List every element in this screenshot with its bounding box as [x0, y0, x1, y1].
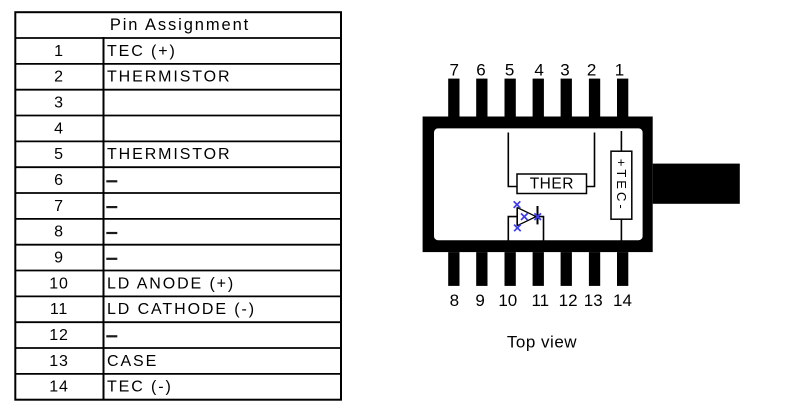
table row pin 8: – — [54, 224, 117, 241]
svg-text:9: 9 — [54, 250, 64, 267]
svg-text:6: 6 — [476, 61, 485, 80]
svg-text:6: 6 — [54, 172, 64, 189]
svg-text:Top view: Top view — [507, 333, 577, 352]
svg-text:+TEC-: +TEC- — [614, 159, 629, 212]
thermistor THER — [517, 174, 587, 194]
svg-text:14: 14 — [49, 379, 68, 396]
pin 7 lead (top) — [448, 79, 459, 117]
svg-text:THER: THER — [530, 175, 574, 192]
svg-text:7: 7 — [54, 198, 64, 215]
table row pin 5: THERMISTOR — [54, 146, 231, 163]
table row pin 3: (blank) — [54, 95, 64, 112]
svg-text:7: 7 — [449, 61, 458, 80]
svg-text:11: 11 — [50, 301, 68, 318]
wire pin 10 to LD anode — [508, 217, 517, 241]
svg-text:LD CATHODE (-): LD CATHODE (-) — [107, 301, 256, 318]
svg-text:12: 12 — [49, 327, 68, 344]
svg-text:13: 13 — [49, 353, 68, 370]
pin assignment table grid — [15, 12, 341, 400]
svg-text:TEC (-): TEC (-) — [107, 379, 173, 396]
svg-text:5: 5 — [505, 61, 514, 80]
svg-text:8: 8 — [450, 291, 459, 310]
pin 4 lead (top) — [533, 79, 544, 117]
svg-text:THERMISTOR: THERMISTOR — [107, 69, 231, 86]
pin 11 lead (bottom) — [533, 252, 544, 286]
table row pin 14: TEC (-) — [49, 379, 172, 396]
svg-text:10: 10 — [49, 275, 68, 292]
svg-text:1: 1 — [54, 43, 64, 60]
pin 3 lead (top) — [561, 79, 572, 117]
pin 1 lead (top) — [617, 79, 628, 117]
pin 13 lead (bottom) — [589, 252, 600, 286]
svg-text:2: 2 — [587, 61, 596, 80]
laser diode LD cathode bar — [537, 206, 539, 224]
svg-text:11: 11 — [531, 291, 549, 310]
table row pin 2: THERMISTOR — [54, 69, 231, 86]
table row pin 1: TEC (+) — [54, 43, 177, 60]
package body (butterfly case, top view) — [423, 117, 653, 253]
svg-text:9: 9 — [475, 291, 484, 310]
table row pin 12: – — [49, 327, 117, 344]
svg-text:3: 3 — [54, 95, 64, 112]
fiber ferrule stub — [653, 164, 740, 204]
table row pin 6: – — [54, 172, 117, 189]
svg-text:LD ANODE (+): LD ANODE (+) — [107, 275, 235, 292]
table row pin 11: LD CATHODE (-) — [50, 301, 256, 318]
pin 8 lead (bottom) — [448, 252, 459, 286]
laser diode LD anode line — [516, 207, 518, 225]
pin 2 lead (top) — [589, 79, 600, 117]
svg-text:THERMISTOR: THERMISTOR — [107, 146, 231, 163]
svg-text:12: 12 — [559, 291, 578, 310]
wire pin 5 to thermistor — [508, 133, 517, 187]
table row pin 7: – — [54, 198, 117, 215]
table row pin 10: LD ANODE (+) — [49, 275, 235, 292]
svg-text:10: 10 — [498, 291, 517, 310]
wire LD cathode to pin 11 — [538, 217, 544, 241]
svg-text:TEC (+): TEC (+) — [107, 43, 177, 60]
svg-text:2: 2 — [54, 69, 64, 86]
svg-text:1: 1 — [615, 61, 624, 80]
table row pin 9: – — [54, 250, 117, 267]
table row pin 13: CASE — [49, 353, 158, 370]
svg-text:14: 14 — [613, 291, 632, 310]
pin 10 lead (bottom) — [505, 252, 516, 286]
selection handle X (LD bottom) — [514, 225, 521, 232]
pin 14 lead (bottom) — [617, 252, 628, 286]
laser diode LD triangle — [517, 208, 536, 226]
wire pin 2 to thermistor — [587, 133, 595, 187]
svg-text:CASE: CASE — [107, 353, 158, 370]
selection handle X (LD center) — [521, 213, 528, 220]
wire TEC to pin 14 — [620, 219, 622, 241]
selection handle X (LD top) — [514, 201, 521, 208]
svg-text:8: 8 — [54, 224, 64, 241]
wire pin 1 to TEC — [620, 131, 622, 151]
table row pin 4: (blank) — [54, 120, 64, 137]
selection handle X (LD cathode) — [534, 213, 541, 220]
package inner cavity — [434, 128, 643, 240]
svg-text:3: 3 — [560, 61, 569, 80]
svg-text:4: 4 — [534, 61, 543, 80]
pin 9 lead (bottom) — [476, 252, 487, 286]
pin 5 lead (top) — [505, 79, 516, 117]
pin 12 lead (bottom) — [561, 252, 572, 286]
svg-text:13: 13 — [584, 291, 603, 310]
TEC module box (+TEC-) — [611, 151, 632, 219]
pin 6 lead (top) — [476, 79, 487, 117]
svg-text:4: 4 — [54, 120, 64, 137]
svg-text:Pin Assignment: Pin Assignment — [110, 16, 250, 34]
svg-text:5: 5 — [54, 146, 64, 163]
